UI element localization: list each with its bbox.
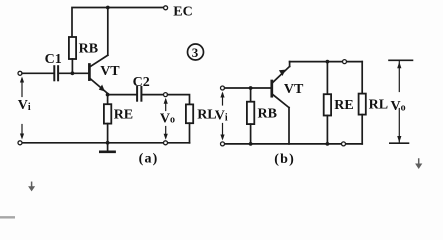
wire: output terminal to RL	[168, 95, 190, 105]
measure arrow Vi (b)	[220, 92, 224, 141]
wire: RE bottom to ground rail	[107, 124, 109, 143]
node: RE bottom junction (b)	[326, 142, 330, 146]
svg-text:EC: EC	[173, 5, 192, 20]
node: ground junction dot	[106, 141, 110, 145]
terminal: input bottom (b)	[221, 142, 225, 146]
wire: RB bottom (b)	[250, 124, 252, 144]
node: RB junction (b)	[249, 86, 253, 90]
capacitor C2	[137, 87, 141, 101]
svg-text:3: 3	[192, 45, 199, 60]
gray scroll arrow left	[28, 182, 35, 191]
terminal: output top (b)	[343, 60, 347, 64]
wire: emitter node down to RE	[107, 95, 109, 105]
transistor VT (a)	[89, 55, 107, 93]
wire: RE top vertical (b)	[326, 62, 328, 95]
transistor VT (b)	[272, 62, 290, 144]
wire: circuit (a) top supply rail	[72, 8, 163, 38]
terminal: input top (a)	[18, 71, 22, 75]
svg-text:Vi: Vi	[215, 109, 228, 124]
resistor RB (a)	[69, 37, 76, 59]
measure arrow Vi (a)	[20, 77, 24, 140]
wire: RL bottom to rail	[189, 123, 191, 143]
svg-text:VT: VT	[284, 82, 304, 97]
svg-text:Vo: Vo	[160, 111, 175, 126]
svg-text:RL: RL	[197, 108, 216, 123]
svg-text:C2: C2	[133, 75, 150, 90]
wire: circuit (b) bottom rail	[225, 143, 363, 145]
wire: RL bottom vertical (b)	[361, 115, 363, 144]
wire: emitter node to C2	[108, 94, 136, 96]
terminal: output bottom (a)	[164, 141, 168, 145]
terminal EC (open circle)	[164, 6, 168, 10]
measure arrow Vo (b) with end caps	[389, 60, 413, 143]
wire: RB bottom to base node	[71, 59, 73, 73]
wire: circuit (b) top rail	[290, 61, 363, 63]
svg-text:RE: RE	[114, 107, 133, 122]
wire: input to base (b)	[225, 87, 271, 89]
svg-text:VT: VT	[100, 64, 120, 79]
svg-text:Vi: Vi	[18, 98, 31, 113]
wire: input to C1	[22, 72, 53, 74]
node: collector tap on top rail	[106, 6, 110, 10]
ground symbol	[100, 143, 114, 152]
resistor RL (a)	[186, 104, 193, 123]
terminal: input top (b)	[221, 86, 225, 90]
wire: RB top (b)	[250, 88, 252, 102]
svg-text:RL: RL	[369, 97, 388, 112]
resistor RE (b)	[324, 94, 331, 115]
resistor RE (a)	[104, 104, 111, 123]
svg-text:(a): (a)	[139, 151, 159, 166]
node: emitter junction (a)	[106, 93, 110, 97]
wire: C2 to output terminal	[143, 94, 164, 96]
svg-text:C1: C1	[45, 52, 62, 67]
resistor RL (b)	[359, 94, 366, 115]
node: base junction dot	[71, 71, 75, 75]
terminal: input bottom (a)	[18, 141, 22, 145]
svg-text:(b): (b)	[274, 152, 295, 167]
node: RE tap on top rail (b)	[326, 60, 330, 64]
svg-text:RB: RB	[258, 107, 277, 122]
wire: collector vertical (a)	[107, 8, 109, 56]
svg-text:RE: RE	[334, 98, 353, 113]
wire: circuit (a) bottom rail	[22, 142, 189, 144]
node: RB bottom junction (b)	[249, 142, 253, 146]
wire: RL top vertical (b)	[361, 62, 363, 94]
measure arrow Vo (a)	[164, 98, 168, 140]
wire: C1 to base bar	[59, 72, 88, 74]
resistor RB (b)	[247, 102, 254, 124]
circled number 3	[188, 44, 204, 60]
svg-text:Vo: Vo	[391, 99, 406, 114]
wire: RE bottom vertical (b)	[326, 116, 328, 144]
gray fragment bottom-left	[0, 216, 15, 219]
terminal: output top (a)	[164, 93, 168, 97]
svg-text:RB: RB	[79, 41, 98, 56]
terminal: output bottom (b)	[342, 142, 346, 146]
gray scroll arrow right	[415, 159, 422, 169]
capacitor C1	[54, 66, 58, 80]
